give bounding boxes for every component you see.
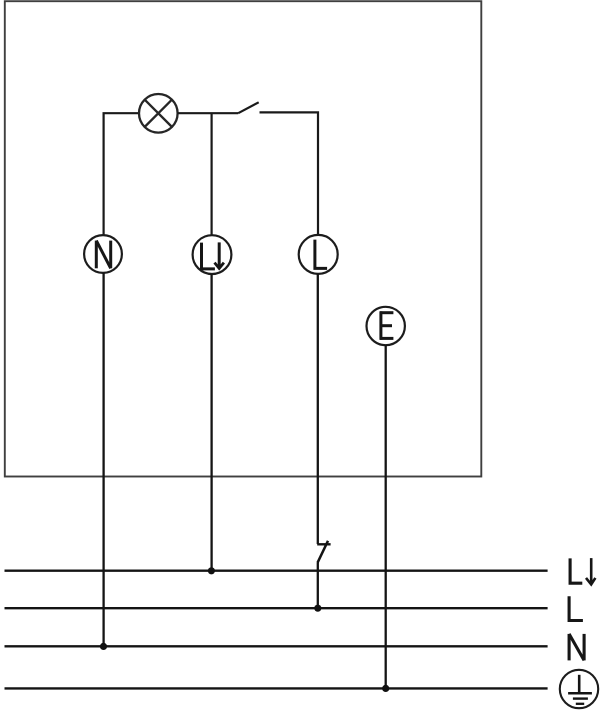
switched-live bus line — [5, 570, 548, 572]
letter L of terminal L — [315, 240, 327, 269]
N bus line — [5, 645, 548, 647]
wire switch to L terminal — [260, 112, 319, 235]
earth bus line — [5, 687, 548, 689]
label N of N bus — [569, 634, 584, 661]
wire L-arrow terminal down to switched-live bus — [210, 274, 212, 572]
wire lamp to switch — [178, 112, 239, 114]
lamp E1 — [139, 94, 178, 133]
wire E terminal down to earth bus — [385, 345, 387, 689]
wire L terminal down to external switch — [317, 274, 319, 544]
junction dot L wire on L bus — [314, 605, 321, 612]
wire from N terminal up and across to lamp — [104, 113, 139, 235]
switch S1 blade — [238, 102, 259, 113]
junction dot N wire on N bus — [100, 643, 107, 650]
wire junction drop to L-arrow terminal — [211, 113, 213, 235]
junction dot E wire on earth bus — [382, 685, 389, 692]
protective earth symbol circle — [560, 670, 598, 708]
device enclosure box — [5, 1, 482, 476]
protective earth symbol stem and bars — [568, 675, 592, 704]
terminal L-arrow circle — [193, 235, 232, 274]
junction dot L-arrow on switched-live bus — [208, 567, 215, 574]
down arrow of terminal L-arrow — [215, 242, 224, 268]
wire switch S2 down to L bus — [317, 562, 319, 609]
letter N of terminal N — [96, 241, 110, 269]
terminal L circle — [299, 235, 338, 274]
L bus line — [5, 607, 548, 609]
label L-arrow of switched-live bus — [570, 558, 595, 584]
external wall switch S2 blade — [318, 541, 328, 563]
letter L of terminal L-arrow — [202, 243, 215, 269]
terminal E circle — [367, 307, 405, 345]
terminal N circle — [84, 235, 122, 273]
wire N terminal down to N bus — [102, 273, 104, 648]
letter E of terminal E — [380, 311, 393, 340]
external wall switch S2 contact tick — [317, 543, 330, 545]
label L of L bus — [569, 596, 583, 620]
